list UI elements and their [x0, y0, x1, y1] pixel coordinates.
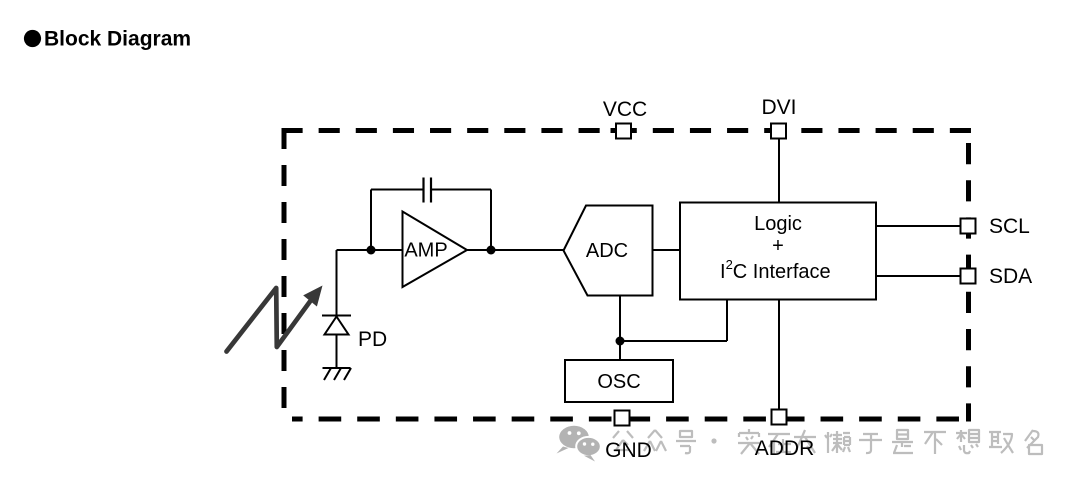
- svg-text:ADDR: ADDR: [755, 437, 815, 460]
- feedback wire left vertical: [370, 190, 372, 251]
- feedback wire right vertical: [490, 190, 492, 251]
- logic block: [680, 203, 876, 300]
- chip boundary dashed right: [966, 143, 971, 422]
- chip boundary dashed bottom: [292, 417, 971, 422]
- wire ADDR vertical: [778, 300, 780, 411]
- svg-text:PD: PD: [358, 328, 387, 351]
- junction dot AMP input: [367, 246, 376, 255]
- svg-text:SDA: SDA: [989, 265, 1032, 288]
- wire logic bottom left vertical: [726, 300, 728, 342]
- ground symbol: [323, 368, 352, 380]
- svg-text:SCL: SCL: [989, 215, 1030, 238]
- wire main horizontal left segment: [337, 249, 403, 251]
- svg-text:DVI: DVI: [761, 96, 796, 119]
- svg-text:VCC: VCC: [603, 98, 647, 121]
- wire AMP output to ADC: [467, 249, 564, 251]
- wire VCC left stub: [611, 128, 617, 133]
- wire PD to ground: [336, 335, 338, 368]
- photodiode PD cathode bar: [322, 315, 351, 317]
- pin DVI square: [771, 124, 786, 139]
- ADC block pentagon: [564, 206, 653, 296]
- junction dot AMP output: [487, 246, 496, 255]
- svg-text:+: +: [772, 235, 784, 257]
- photodiode PD triangle: [325, 317, 349, 335]
- pin ADDR square: [772, 410, 787, 425]
- title bullet: [24, 30, 41, 47]
- wire SCL horizontal: [876, 225, 961, 227]
- light arrow into PD: [227, 286, 323, 352]
- svg-text:I2C Interface: I2C Interface: [720, 257, 831, 283]
- svg-text:GND: GND: [605, 439, 652, 462]
- svg-text:OSC: OSC: [597, 371, 640, 393]
- wire ADC bottom vertical: [619, 296, 621, 361]
- capacitor C plates: [422, 178, 424, 203]
- svg-text:Block Diagram: Block Diagram: [44, 28, 191, 51]
- svg-text:AMP: AMP: [404, 240, 447, 262]
- feedback wire top right: [431, 189, 491, 191]
- wire OSC node to logic horizontal: [620, 340, 727, 342]
- OSC block: [565, 360, 673, 402]
- wire PD vertical: [336, 250, 338, 316]
- svg-text:Logic: Logic: [754, 213, 802, 235]
- svg-text:ADC: ADC: [586, 240, 628, 262]
- chip boundary dashed top: [282, 128, 972, 133]
- pin GND square: [615, 411, 630, 426]
- watermark wechat icon: [557, 426, 601, 462]
- pin SDA square: [961, 269, 976, 284]
- op-amp AMP triangle: [403, 212, 468, 288]
- feedback wire top left: [371, 189, 424, 191]
- watermark text 公众号·实在太懒于是不想取名: [613, 429, 1042, 454]
- chip boundary dashed left: [282, 128, 287, 408]
- wire SDA horizontal: [876, 275, 961, 277]
- pin SCL square: [961, 219, 976, 234]
- pin VCC square: [616, 124, 631, 139]
- wire DVI vertical: [778, 139, 780, 203]
- junction dot OSC node: [616, 337, 625, 346]
- wire ADC to logic: [653, 249, 681, 251]
